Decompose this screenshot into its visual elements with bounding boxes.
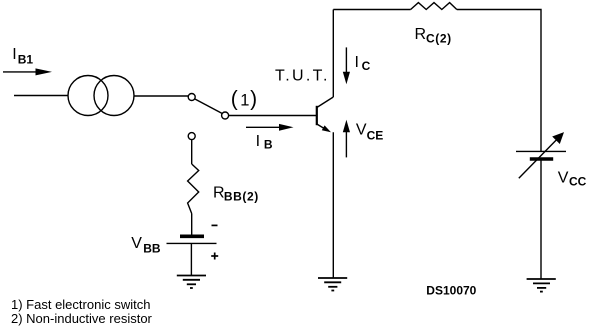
- node: RBB branch contact: [188, 133, 195, 140]
- wire: resistor RC to right corner and down: [457, 10, 541, 152]
- svg-text:R: R: [415, 26, 427, 43]
- arrow: IB1 current direction: [3, 71, 40, 73]
- label IB: [256, 133, 273, 152]
- resistor RBB(2) zigzag: [188, 164, 199, 214]
- svg-text:BB: BB: [143, 241, 161, 255]
- svg-text:V: V: [356, 121, 367, 138]
- svg-text:V: V: [131, 235, 142, 252]
- svg-text:2) Non-inductive resistor: 2) Non-inductive resistor: [11, 311, 153, 326]
- source VCC variability arrowhead: [552, 132, 564, 144]
- label VBB: [131, 235, 161, 255]
- transistor Q1 emitter arrowhead: [322, 125, 331, 132]
- svg-text:T.U.T.: T.U.T.: [275, 68, 330, 85]
- transistor Q1 (T.U.T.) base bar: [316, 106, 318, 125]
- wire: resistor RBB to battery VBB: [191, 214, 193, 235]
- wire: top rail to resistor RC: [333, 9, 410, 11]
- wire: current source to switch: [135, 95, 189, 97]
- wire: collector up to top rail: [332, 10, 334, 98]
- svg-text:C: C: [362, 59, 371, 73]
- svg-text:I: I: [12, 46, 16, 63]
- transistor Q1 collector lead: [317, 97, 334, 108]
- svg-text:R: R: [213, 185, 225, 202]
- switch S1 arm: [195, 99, 222, 113]
- label RBB(2): [213, 185, 259, 204]
- transistor Q1 emitter lead: [317, 124, 326, 130]
- svg-text:1) Fast electronic switch: 1) Fast electronic switch: [11, 297, 150, 312]
- arrow: IB current direction: [246, 126, 282, 128]
- ground symbol (emitter): [318, 278, 347, 291]
- source VCC variability arrow shaft: [519, 140, 557, 178]
- switch S1 contact b: [222, 112, 229, 119]
- battery VBB positive plate (thin long): [167, 242, 217, 244]
- wire: battery VBB to ground: [190, 243, 192, 275]
- svg-text:V: V: [558, 170, 569, 187]
- label IB1: [12, 46, 33, 67]
- label IC: [355, 54, 371, 73]
- ground symbol (VCC): [527, 279, 556, 292]
- wire: contact down to resistor RBB: [191, 140, 193, 164]
- source VCC positive plate (thin long): [516, 150, 566, 152]
- battery VBB minus sign: [212, 224, 218, 226]
- svg-text:I: I: [256, 133, 260, 150]
- wire: VCC to ground: [540, 159, 542, 279]
- source VCC negative plate (thick short): [530, 157, 553, 161]
- svg-text:C(2): C(2): [426, 31, 452, 45]
- current source symbol (two overlapping circles): [68, 76, 108, 116]
- svg-text:CC: CC: [569, 174, 587, 188]
- svg-text:B: B: [264, 138, 273, 152]
- svg-text:DS10070: DS10070: [426, 284, 476, 298]
- wire: input lead left: [14, 95, 68, 97]
- label (1) switch note: [231, 87, 257, 110]
- svg-text:(: (: [231, 87, 238, 110]
- resistor RC(2) zigzag: [411, 3, 457, 10]
- svg-text:BB(2): BB(2): [224, 190, 259, 204]
- label VCC: [558, 170, 587, 189]
- wire: switch to transistor base: [229, 115, 316, 117]
- svg-text:CE: CE: [367, 128, 384, 142]
- battery VBB negative plate (thick short): [180, 235, 204, 239]
- svg-text:B1: B1: [18, 53, 34, 67]
- svg-text:): ): [250, 87, 257, 110]
- ground symbol (VBB): [177, 276, 206, 289]
- label RC(2): [415, 26, 452, 45]
- arrow: VCE voltage (up): [345, 131, 347, 157]
- switch S1 contact a: [188, 94, 195, 101]
- battery VBB plus sign: [211, 253, 218, 260]
- wire: emitter down to ground: [332, 132, 334, 278]
- label VCE: [356, 121, 383, 142]
- arrow: IC current direction (down): [345, 47, 347, 73]
- svg-text:I: I: [355, 54, 359, 71]
- svg-text:1: 1: [240, 91, 249, 109]
